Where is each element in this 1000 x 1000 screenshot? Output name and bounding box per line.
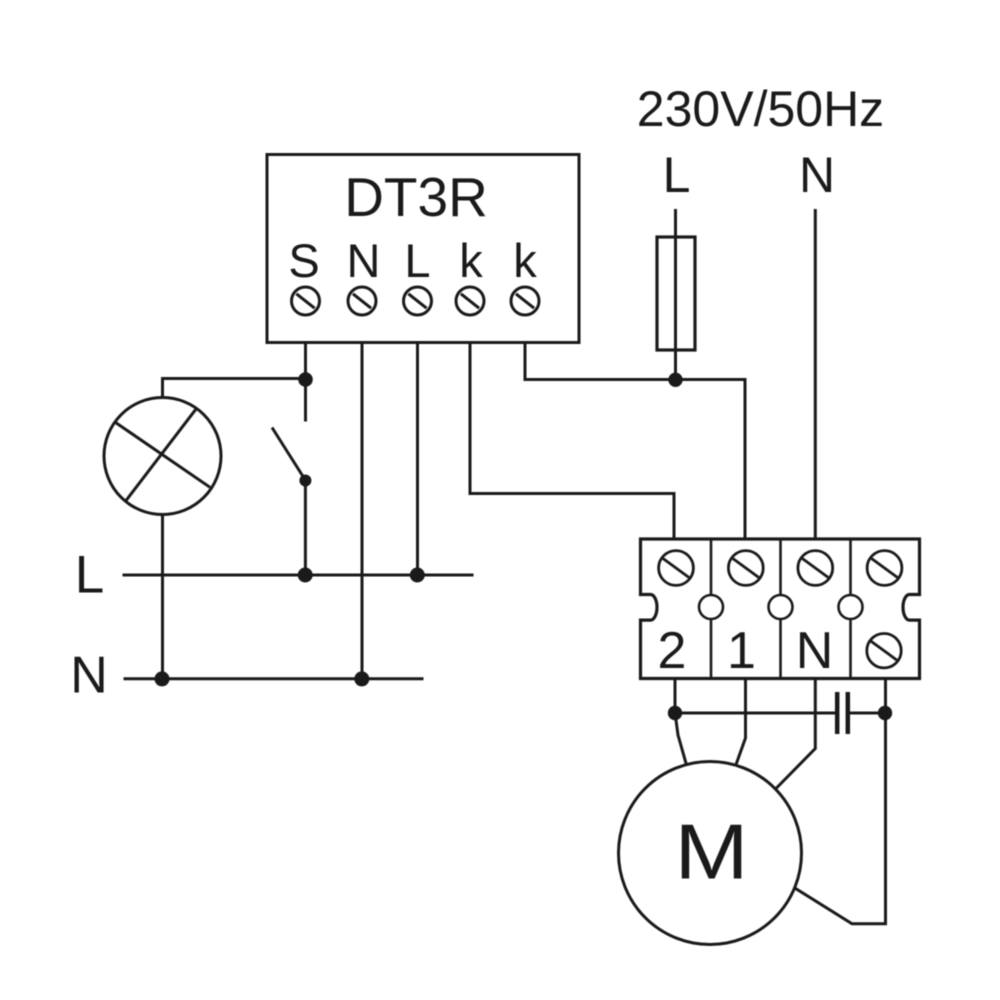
svg-text:S: S	[288, 234, 319, 287]
svg-text:N: N	[796, 622, 834, 680]
svg-text:230V/50Hz: 230V/50Hz	[637, 81, 884, 137]
svg-text:L: L	[404, 234, 430, 287]
svg-text:2: 2	[658, 622, 687, 680]
svg-text:L: L	[663, 147, 691, 203]
svg-text:M: M	[674, 807, 748, 895]
svg-text:DT3R: DT3R	[344, 166, 488, 228]
svg-text:N: N	[347, 234, 381, 287]
svg-text:k: k	[459, 234, 483, 287]
svg-text:N: N	[70, 647, 108, 705]
svg-text:L: L	[75, 546, 104, 605]
svg-text:k: k	[513, 234, 537, 287]
svg-text:N: N	[799, 147, 835, 203]
svg-text:1: 1	[727, 622, 756, 680]
